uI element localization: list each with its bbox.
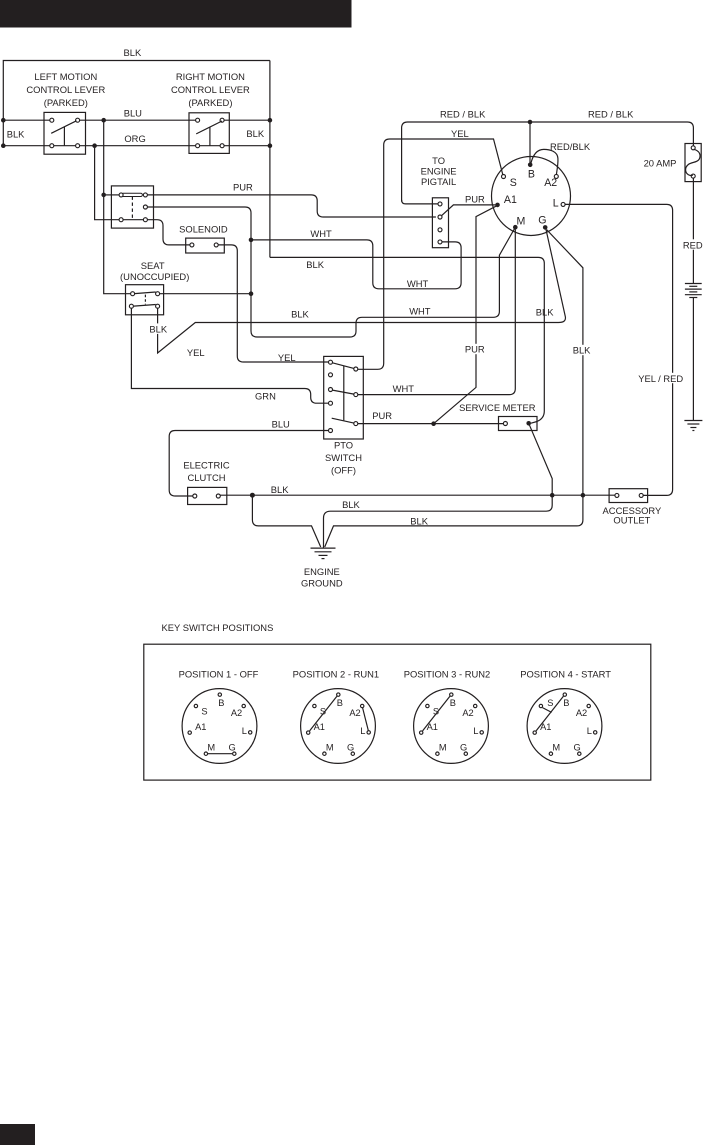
node seat wire junction: [249, 291, 254, 296]
svg-text:PUR: PUR: [465, 343, 485, 354]
svg-text:PUR: PUR: [372, 410, 392, 421]
service meter M1: [499, 417, 538, 431]
wire relay bottom-right to solenoid: [147, 220, 190, 245]
wire BLU drop to seat (x=103.7): [104, 122, 131, 293]
terminal L: [561, 202, 565, 206]
svg-text:L: L: [360, 726, 365, 736]
svg-text:A2: A2: [544, 177, 557, 189]
wire RED/BLK top rail: [402, 122, 694, 202]
svg-text:S: S: [510, 177, 517, 189]
svg-text:G: G: [538, 214, 546, 226]
node right ORG end: [268, 143, 273, 148]
key position 3 RUN2 circle: [414, 689, 489, 764]
wire ORG (y=145.7): [3, 145, 270, 147]
solenoid L1: [186, 238, 225, 253]
svg-text:YEL: YEL: [451, 128, 469, 139]
wire meter to BLK junction: [529, 423, 553, 495]
interlock relay K1: [111, 186, 153, 228]
wire right edge down to BLK meter wire: [269, 61, 271, 258]
wire BLU PTO to electric clutch: [169, 431, 328, 497]
svg-text:BLK: BLK: [7, 128, 25, 139]
key switch SW1 body: [492, 157, 571, 236]
svg-text:(PARKED): (PARKED): [188, 97, 232, 108]
svg-text:M: M: [207, 743, 215, 753]
wire BLK G to bottom rail: [325, 230, 583, 548]
svg-text:B: B: [528, 169, 535, 181]
wire seat top-right to junction: [160, 293, 251, 295]
svg-text:(OFF): (OFF): [331, 465, 356, 476]
svg-text:L: L: [242, 726, 247, 736]
node BLU junction: [101, 118, 106, 123]
svg-text:BLK: BLK: [306, 259, 324, 270]
svg-text:M: M: [439, 743, 447, 753]
svg-text:A2: A2: [349, 708, 360, 718]
wire BLK clutch junction to engine ground: [252, 495, 320, 547]
wire RED fuse to battery: [692, 178, 694, 283]
svg-text:B: B: [218, 698, 224, 708]
header black bar: [0, 0, 352, 28]
terminal B: [528, 163, 533, 168]
wire BLK seat bottom-right to key switch G: [158, 230, 566, 354]
svg-text:PTO: PTO: [334, 440, 353, 451]
svg-text:OUTLET: OUTLET: [613, 514, 650, 525]
svg-text:ENGINE: ENGINE: [304, 566, 340, 577]
engine pigtail connector J1: [432, 198, 448, 248]
svg-text:PUR: PUR: [233, 182, 253, 193]
node clutch junction: [250, 493, 255, 498]
svg-text:M: M: [517, 215, 526, 227]
wire drop to key switch B: [529, 122, 531, 164]
footer black bar: [0, 1124, 35, 1145]
node relay branch: [101, 193, 106, 198]
svg-text:RED / BLK: RED / BLK: [588, 109, 634, 120]
wire BLK top (outer box top line): [3, 61, 270, 146]
svg-text:ENGINE: ENGINE: [421, 165, 457, 176]
node right BLU end: [268, 118, 273, 123]
svg-text:S: S: [201, 706, 207, 716]
svg-text:A1: A1: [504, 194, 517, 206]
node PUR junction: [431, 421, 436, 426]
svg-text:CONTROL LEVER: CONTROL LEVER: [171, 84, 250, 95]
key position 2 RUN1 circle: [301, 689, 376, 764]
svg-text:POSITION 2 - RUN1: POSITION 2 - RUN1: [293, 669, 379, 680]
svg-text:YEL / RED: YEL / RED: [638, 373, 683, 384]
svg-text:B: B: [450, 698, 456, 708]
svg-text:CONTROL LEVER: CONTROL LEVER: [26, 84, 105, 95]
wire BLU (y=120.2): [3, 119, 50, 121]
svg-text:SOLENOID: SOLENOID: [179, 224, 228, 235]
svg-text:BLK: BLK: [271, 484, 289, 495]
svg-text:SERVICE METER: SERVICE METER: [459, 402, 536, 413]
svg-text:CLUTCH: CLUTCH: [187, 472, 225, 483]
node G drop junction: [581, 493, 586, 498]
svg-text:BLK: BLK: [124, 47, 142, 58]
wire relay top-left branch: [106, 194, 119, 196]
svg-text:WHT: WHT: [310, 228, 332, 239]
label PUR: [463, 344, 486, 354]
svg-text:LEFT MOTION: LEFT MOTION: [34, 71, 97, 82]
svg-text:BLK: BLK: [246, 128, 264, 139]
svg-text:SEAT: SEAT: [141, 260, 165, 271]
left motion control lever switch S1: [44, 112, 86, 154]
svg-text:A2: A2: [576, 708, 587, 718]
wire PUR pigtail pin2 to A1: [442, 205, 496, 216]
svg-text:A1: A1: [195, 722, 206, 732]
svg-text:G: G: [573, 742, 580, 752]
svg-text:L: L: [587, 726, 592, 736]
terminal S: [502, 175, 506, 179]
wire battery to ground: [692, 298, 694, 421]
svg-text:POSITION 4 - START: POSITION 4 - START: [520, 669, 611, 680]
svg-text:BLU: BLU: [272, 419, 290, 430]
wire BLK to service meter (y=257.4): [270, 257, 544, 423]
key positions panel frame: [144, 644, 651, 780]
svg-text:RED/BLK: RED/BLK: [550, 141, 591, 152]
svg-text:SWITCH: SWITCH: [325, 452, 362, 463]
svg-text:BLU: BLU: [124, 108, 142, 119]
node B branch: [528, 120, 533, 125]
right motion control lever switch S2: [189, 113, 229, 154]
svg-text:POSITION 3 - RUN2: POSITION 3 - RUN2: [404, 669, 490, 680]
node meter drop junction: [550, 493, 555, 498]
svg-text:WHT: WHT: [407, 278, 429, 289]
PTO switch S4: [324, 356, 364, 439]
svg-text:A2: A2: [231, 708, 242, 718]
wire YEL key switch S to PTO: [358, 139, 503, 369]
svg-text:ELECTRIC: ELECTRIC: [183, 459, 230, 470]
node relay-mid branch: [249, 238, 254, 243]
accessory outlet J2: [609, 489, 648, 503]
svg-text:BLK: BLK: [149, 324, 167, 335]
wire BLK main bottom rail: [220, 494, 615, 496]
svg-text:ORG: ORG: [124, 133, 145, 144]
wire GRN seat to PTO: [131, 308, 328, 403]
svg-text:GRN: GRN: [255, 391, 276, 402]
ground battery: [684, 421, 702, 431]
terminal M: [513, 225, 518, 230]
svg-text:BLK: BLK: [291, 309, 309, 320]
svg-text:20 AMP: 20 AMP: [644, 157, 677, 168]
svg-text:BLK: BLK: [410, 515, 428, 526]
terminal A2: [554, 174, 558, 178]
label YEL / RED: [637, 373, 684, 383]
label BLK over wire: [147, 323, 171, 334]
engine ground symbol: [311, 548, 336, 559]
svg-text:G: G: [347, 742, 354, 752]
node left ORG end: [1, 143, 6, 148]
wire PUR relay to pigtail: [147, 195, 436, 217]
svg-text:B: B: [563, 698, 569, 708]
electric clutch CL1: [188, 487, 227, 504]
svg-text:S: S: [547, 698, 553, 708]
wire M down to PTO (WHT): [358, 230, 516, 395]
svg-text:L: L: [553, 197, 559, 209]
wire BLK engine ground to meter junction: [324, 495, 553, 547]
svg-text:KEY SWITCH POSITIONS: KEY SWITCH POSITIONS: [162, 622, 274, 633]
svg-text:M: M: [552, 743, 560, 753]
battery BT1: [685, 284, 702, 298]
svg-text:(PARKED): (PARKED): [44, 97, 88, 108]
svg-text:B: B: [337, 698, 343, 708]
svg-text:YEL: YEL: [187, 347, 205, 358]
label BLK: [571, 345, 594, 355]
RED/BLK jumper B to A2: [531, 149, 558, 174]
svg-text:(UNOCCUPIED): (UNOCCUPIED): [120, 271, 189, 282]
svg-text:WHT: WHT: [409, 305, 431, 316]
wire ORG drop to relay (x=94.6): [95, 148, 119, 220]
svg-text:G: G: [460, 742, 467, 752]
seat switch S3: [126, 285, 164, 315]
svg-text:BLK: BLK: [536, 306, 554, 317]
svg-text:RED / BLK: RED / BLK: [440, 109, 486, 120]
svg-text:BLK: BLK: [342, 499, 360, 510]
svg-text:POSITION 1 - OFF: POSITION 1 - OFF: [179, 669, 259, 680]
label RED: [682, 239, 703, 249]
svg-text:PUR: PUR: [465, 193, 485, 204]
svg-text:L: L: [473, 726, 478, 736]
wire PUR A1 to PTO / service meter: [434, 206, 496, 424]
key position 1 OFF circle: [182, 689, 257, 764]
svg-text:YEL: YEL: [278, 352, 296, 363]
fuse F1 20 AMP: [685, 144, 701, 182]
wire relay mid to key switch M (WHT): [147, 207, 514, 337]
terminal G: [543, 225, 548, 230]
node ORG junction: [92, 143, 97, 148]
svg-text:BLK: BLK: [573, 345, 591, 356]
node left BLU end: [1, 118, 6, 123]
wire L to accessory outlet (YEL/RED): [565, 204, 673, 495]
svg-text:G: G: [228, 742, 235, 752]
svg-text:GROUND: GROUND: [301, 578, 343, 589]
wire PUR PTO to service meter: [358, 423, 504, 425]
svg-text:A2: A2: [462, 708, 473, 718]
svg-text:WHT: WHT: [393, 383, 415, 394]
wire solenoid to PTO YEL riser: [218, 245, 328, 362]
wire WHT loop to engine pigtail pin4: [251, 240, 461, 289]
terminal A1: [495, 203, 500, 208]
svg-text:RED: RED: [683, 239, 703, 250]
svg-text:RIGHT MOTION: RIGHT MOTION: [176, 71, 245, 82]
wire into pigtail pin1: [402, 200, 438, 204]
svg-text:M: M: [326, 743, 334, 753]
key position 4 START circle: [527, 689, 602, 764]
svg-text:PIGTAIL: PIGTAIL: [421, 176, 456, 187]
